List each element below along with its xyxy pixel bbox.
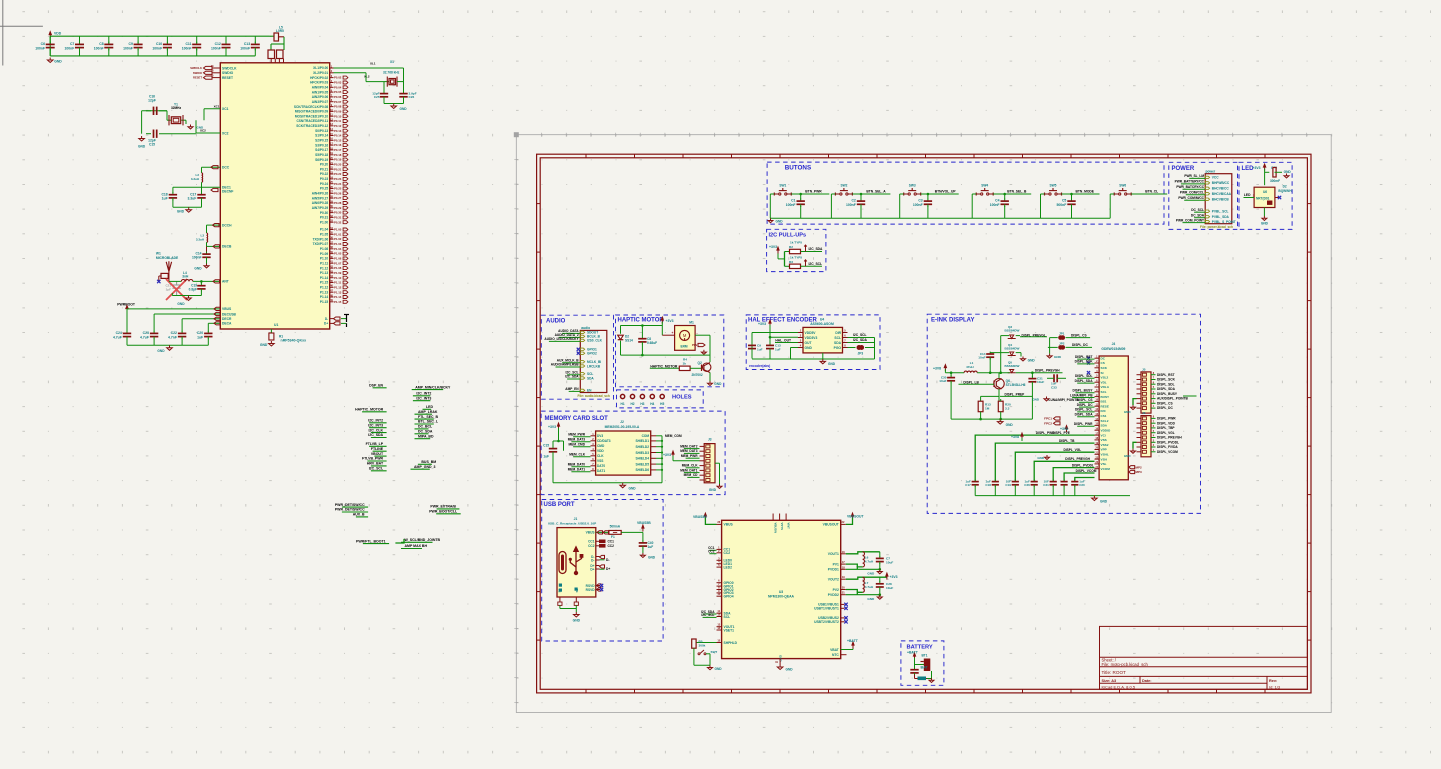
svg-text:LED2: LED2 <box>724 565 733 569</box>
svg-text:DECUSB: DECUSB <box>222 312 237 316</box>
svg-text:VSL2: VSL2 <box>1101 376 1109 380</box>
power +BATT <box>914 656 916 659</box>
svg-text:CC2: CC2 <box>608 544 615 548</box>
capacitor C2 <box>860 193 863 196</box>
svg-text:NPM1300-QEAA: NPM1300-QEAA <box>768 595 795 599</box>
pin CC2 <box>717 552 722 554</box>
svg-text:MEM_COM: MEM_COM <box>665 434 682 438</box>
svg-text:P0.31: P0.31 <box>320 216 329 220</box>
svg-text:GND: GND <box>776 220 784 224</box>
svg-text:C2: C2 <box>851 199 855 203</box>
capacitor C31 <box>1031 373 1033 377</box>
svg-text:1uF: 1uF <box>162 197 168 201</box>
ground right <box>715 462 720 464</box>
svg-text:C18: C18 <box>985 483 991 487</box>
svg-text:C20: C20 <box>1079 483 1085 487</box>
svg-text:P0.12: P0.12 <box>334 124 342 128</box>
svg-text:S0/P0.13: S0/P0.13 <box>315 129 328 133</box>
ground <box>1049 354 1051 356</box>
svg-text:SCL2: SCL2 <box>1101 419 1109 423</box>
svg-text:SI: SI <box>1101 371 1104 375</box>
svg-text:P0.32: P0.32 <box>334 220 342 224</box>
svg-text:CMD: CMD <box>597 444 605 448</box>
svg-text:R2: R2 <box>789 245 793 249</box>
svg-text:CD/DAT3: CD/DAT3 <box>597 439 611 443</box>
svg-text:BSS84DW: BSS84DW <box>1005 347 1020 351</box>
svg-text:RSVD: RSVD <box>586 588 596 592</box>
svg-text:I2C_INT3: I2C_INT3 <box>368 423 383 427</box>
svg-text:+3V3: +3V3 <box>1253 166 1261 170</box>
capacitor C15 <box>146 133 151 135</box>
wire bottom rail <box>771 217 1111 219</box>
svg-text:P0.25: P0.25 <box>334 187 342 191</box>
svg-text:P0.26: P0.26 <box>334 191 342 195</box>
svg-text:DSP_EN: DSP_EN <box>369 384 383 388</box>
svg-text:HAPTIC MOTOR: HAPTIC MOTOR <box>618 318 665 324</box>
svg-text:3.3: 3.3 <box>1005 407 1010 411</box>
svg-text:I2C PULL-UPs: I2C PULL-UPs <box>769 233 807 239</box>
power +3V3 <box>1264 167 1266 170</box>
capacitor C25 <box>383 91 385 94</box>
ground <box>1263 208 1265 217</box>
svg-text:DAT0: DAT0 <box>597 464 605 468</box>
svg-text:GND: GND <box>1032 398 1040 402</box>
svg-text:W_SCL/BND_JOINTB: W_SCL/BND_JOINTB <box>405 538 441 542</box>
sheet pin PVBL_S_POINT <box>1205 220 1209 222</box>
capacitor C10 <box>166 36 168 43</box>
svg-text:D-: D- <box>606 558 609 562</box>
block POWER <box>1169 162 1238 229</box>
U1 right side pins group A <box>330 67 334 69</box>
svg-text:DECB: DECB <box>222 245 232 249</box>
svg-text:P0.11: P0.11 <box>334 119 342 123</box>
svg-text:POWER: POWER <box>1172 166 1195 172</box>
svg-text:1pF: 1pF <box>166 288 172 292</box>
sheet pin I2S0_CLK <box>580 339 584 341</box>
svg-text:SCL: SCL <box>834 336 841 340</box>
resistor R2 vdd filter <box>271 43 284 45</box>
svg-text:DCC: DCC <box>222 166 230 170</box>
svg-text:GND: GND <box>54 60 62 64</box>
svg-text:100nF: 100nF <box>211 46 221 50</box>
svg-text:DISPL_RST: DISPL_RST <box>1157 373 1175 377</box>
svg-text:D2: D2 <box>1283 185 1287 189</box>
svg-text:SWDIO: SWDIO <box>193 71 202 75</box>
svg-text:SHIELD6: SHIELD6 <box>636 468 650 472</box>
sheet pin BCLK_B <box>580 335 584 337</box>
svg-text:P0.20: P0.20 <box>320 163 329 167</box>
block MEMORY CARD SLOT <box>541 411 725 495</box>
pin DECB <box>207 245 221 247</box>
right pins vout1 <box>841 553 846 555</box>
svg-text:DISPL_SCK: DISPL_SCK <box>1075 360 1094 364</box>
svg-text:STL5N3LLH6: STL5N3LLH6 <box>1006 383 1026 387</box>
svg-text:BUSY: BUSY <box>1101 395 1111 399</box>
resistor R1 <box>270 329 272 333</box>
svg-text:GND: GND <box>715 667 723 671</box>
svg-text:MEM2051-00-195-00-A: MEM2051-00-195-00-A <box>605 425 640 429</box>
svg-text:MEM_CMD: MEM_CMD <box>569 442 586 446</box>
power +3V8 <box>944 368 946 371</box>
wires to gnd <box>553 482 662 484</box>
svg-text:audio: audio <box>581 326 590 330</box>
svg-text:VCC: VCC <box>1212 176 1219 180</box>
svg-text:1uF: 1uF <box>197 335 203 339</box>
svg-text:FPC1: FPC1 <box>1044 417 1052 421</box>
svg-text:P0.06: P0.06 <box>334 95 342 99</box>
svg-text:I2S0_CLK: I2S0_CLK <box>587 339 603 343</box>
svg-text:1k: 1k <box>683 361 687 365</box>
svg-text:USBT2/VBUST2: USBT2/VBUST2 <box>814 620 839 624</box>
svg-text:PWR_COM_POINT: PWR_COM_POINT <box>1176 218 1204 222</box>
svg-text:FPC2: FPC2 <box>1044 422 1052 426</box>
hlabels FPC <box>1054 417 1061 420</box>
svg-text:D+: D+ <box>324 322 328 326</box>
pin SWDCLK <box>212 67 220 69</box>
svg-text:C26: C26 <box>1024 483 1030 487</box>
svg-text:MEM_DAT2: MEM_DAT2 <box>680 444 698 448</box>
svg-text:GND: GND <box>1037 456 1045 460</box>
svg-text:C13: C13 <box>244 42 250 46</box>
svg-text:GND: GND <box>1124 454 1132 458</box>
pin GPIO4 <box>717 595 722 597</box>
capacitor C23 <box>153 314 155 332</box>
svg-text:GND: GND <box>1284 170 1292 174</box>
svg-text:I2C_INT2: I2C_INT2 <box>368 419 383 423</box>
svg-text:P1.14: P1.14 <box>320 276 329 280</box>
ground <box>575 612 577 615</box>
svg-text:P1.09: P1.09 <box>334 271 342 275</box>
svg-text:P1.06: P1.06 <box>334 257 342 261</box>
svg-text:P1.12: P1.12 <box>320 286 329 290</box>
svg-text:P1.09: P1.09 <box>320 252 329 256</box>
sheet pin BHCVB/CAA <box>1205 193 1209 195</box>
svg-text:100nF: 100nF <box>913 203 923 207</box>
svg-text:PIN: PIN <box>692 343 697 347</box>
capacitor C7 <box>79 36 81 43</box>
svg-text:CS1: CS1 <box>1101 414 1107 418</box>
labels right <box>848 337 875 339</box>
svg-text:BUTONS: BUTONS <box>785 165 811 172</box>
svg-text:100nF: 100nF <box>35 46 45 50</box>
sheet pin BHCVB/CB <box>1205 198 1209 200</box>
svg-text:AUX/DISPL_POINTB: AUX/DISPL_POINTB <box>1157 397 1189 401</box>
capacitor C17 <box>201 192 203 195</box>
pin LED0 <box>717 559 722 561</box>
ground <box>188 296 190 299</box>
svg-text:EN: EN <box>587 389 592 393</box>
svg-text:MEM_DAT0: MEM_DAT0 <box>568 462 586 466</box>
pin DECA <box>208 322 220 324</box>
resistor R13 <box>980 396 982 401</box>
svg-text:C15: C15 <box>149 142 155 146</box>
svg-text:LED: LED <box>426 405 433 409</box>
svg-text:I2C_INT2: I2C_INT2 <box>416 392 431 396</box>
svg-text:W1: W1 <box>156 251 161 255</box>
svg-text:DISPL_BUSY: DISPL_BUSY <box>1157 392 1178 396</box>
svg-text:+BATT: +BATT <box>907 651 919 655</box>
svg-text:MEM_CLK: MEM_CLK <box>682 464 698 468</box>
svg-text:C21: C21 <box>1043 483 1049 487</box>
svg-text:4.7uF: 4.7uF <box>140 335 149 339</box>
capacitor C4 <box>1003 193 1006 196</box>
svg-text:FTLVB_PWR: FTLVB_PWR <box>362 457 384 461</box>
svg-text:P1.11: P1.11 <box>334 281 342 285</box>
svg-text:VDD3V3: VDD3V3 <box>805 336 818 340</box>
svg-text:H4: H4 <box>650 402 654 406</box>
svg-text:DC_SCL: DC_SCL <box>1191 208 1204 212</box>
block LED <box>1239 162 1292 229</box>
svg-text:FTLINE: FTLINE <box>371 447 384 451</box>
svg-text:100nF: 100nF <box>64 46 74 50</box>
capacitor C18 <box>172 187 174 193</box>
svg-text:2N7002: 2N7002 <box>692 373 703 377</box>
mounting hole H5 <box>660 394 664 398</box>
svg-text:C15: C15 <box>543 444 549 448</box>
svg-text:C11: C11 <box>185 42 191 46</box>
svg-text:+3V3: +3V3 <box>666 319 674 323</box>
svg-text:12pF: 12pF <box>148 98 156 102</box>
svg-text:S2/P0.15: S2/P0.15 <box>315 139 328 143</box>
svg-text:PWR_BOOT/CLL: PWR_BOOT/CLL <box>429 510 458 514</box>
svg-text:C17: C17 <box>190 192 196 196</box>
svg-text:PWR_DET/SW/CC: PWR_DET/SW/CC <box>335 508 365 512</box>
pin VBUS <box>127 308 220 310</box>
svg-text:Q2: Q2 <box>698 361 702 365</box>
block AUDIO <box>541 315 613 399</box>
svg-text:4.7nF: 4.7nF <box>168 335 177 339</box>
ground <box>999 419 1001 422</box>
svg-text:BAT: BAT <box>921 666 929 670</box>
svg-text:BHFWB/CC: BHFWB/CC <box>1212 181 1230 185</box>
svg-text:+3V3: +3V3 <box>663 453 671 457</box>
LED driver U6 <box>1254 187 1275 207</box>
svg-text:P0.02: P0.02 <box>334 76 342 80</box>
capacitor C28 <box>879 577 881 582</box>
svg-text:C23: C23 <box>143 331 149 335</box>
mounting hole H3 <box>640 394 644 398</box>
svg-text:47uH: 47uH <box>966 365 974 369</box>
svg-text:MEM_DAT1: MEM_DAT1 <box>680 468 698 472</box>
svg-text:AIN6/P0.28: AIN6/P0.28 <box>312 201 329 205</box>
jumper JP3 <box>848 347 856 349</box>
svg-text:DISPL_TBP: DISPL_TBP <box>1157 426 1175 430</box>
svg-text:M1: M1 <box>689 321 694 325</box>
svg-text:100nF: 100nF <box>182 46 192 50</box>
svg-text:DISPL_VDD: DISPL_VDD <box>1157 421 1176 425</box>
svg-text:NRT(D01: NRT(D01 <box>1256 197 1270 201</box>
svg-text:P0.22: P0.22 <box>320 172 329 176</box>
svg-text:DISPL_BUSY: DISPL_BUSY <box>1072 389 1093 393</box>
svg-text:0.8pF: 0.8pF <box>189 287 197 291</box>
svg-text:P1.13: P1.13 <box>320 271 329 275</box>
ground <box>188 207 190 210</box>
svg-text:CC2: CC2 <box>708 550 715 554</box>
svg-text:BTL_SEC_L: BTL_SEC_L <box>418 420 439 424</box>
svg-text:DISPL_SCK: DISPL_SCK <box>1157 378 1176 382</box>
svg-text:BUS_BM: BUS_BM <box>421 460 436 464</box>
svg-text:I2C_SCL: I2C_SCL <box>853 333 867 337</box>
power +3V8b <box>1066 429 1068 432</box>
svg-text:P1.05: P1.05 <box>320 233 329 237</box>
svg-text:Size: A3: Size: A3 <box>1102 679 1117 683</box>
svg-text:XC1: XC1 <box>214 105 220 109</box>
svg-text:P0.08: P0.08 <box>334 105 342 109</box>
capacitor C30 <box>950 373 952 376</box>
pin SHPHLD <box>717 642 722 644</box>
bottom wire <box>752 358 875 360</box>
svg-text:PWR_DET/SW/CC: PWR_DET/SW/CC <box>335 503 365 507</box>
svg-text:DISPL_PREVGH: DISPL_PREVGH <box>1035 369 1060 373</box>
svg-text:VDD: VDD <box>597 449 604 453</box>
sheet pin PVBL_SCL <box>1205 210 1209 212</box>
capacitor C11 <box>196 36 198 43</box>
svg-text:SDA: SDA <box>587 376 594 380</box>
svg-text:JP3: JP3 <box>857 352 863 356</box>
svg-text:I2C_CLK: I2C_CLK <box>369 428 384 432</box>
svg-text:I2C_SDA: I2C_SDA <box>565 375 579 379</box>
inductor L3 <box>207 224 221 226</box>
resistor R20 <box>998 401 1003 412</box>
sheet pin BHCVB/CC <box>1205 187 1209 189</box>
svg-text:VBUS: VBUS <box>724 523 734 527</box>
svg-text:C20: C20 <box>197 331 203 335</box>
svg-text:P0.05: P0.05 <box>334 90 342 94</box>
svg-text:X1: X1 <box>390 60 394 64</box>
power VBUSOUT <box>852 516 854 519</box>
usb trident <box>570 552 581 573</box>
svg-text:DISPL_PWR: DISPL_PWR <box>1074 422 1093 426</box>
svg-text:D/C: D/C <box>1101 409 1107 413</box>
svg-text:C24: C24 <box>116 331 122 335</box>
svg-text:GND: GND <box>177 302 185 306</box>
svg-text:P0.23: P0.23 <box>334 177 342 181</box>
crystal Y1 32MHz <box>204 108 220 110</box>
svg-text:I2C_SCL: I2C_SCL <box>701 613 714 617</box>
svg-text:GND: GND <box>400 107 408 111</box>
svg-text:S1: S1 <box>558 588 562 592</box>
svg-text:KiCad E.D.A. 8.0.5: KiCad E.D.A. 8.0.5 <box>1102 685 1136 690</box>
sheet frame <box>537 154 1311 693</box>
svg-text:4.7uH: 4.7uH <box>865 585 874 589</box>
svg-text:C33: C33 <box>1051 385 1057 389</box>
ground mid <box>1046 455 1048 457</box>
pin VBUS <box>596 531 609 533</box>
hlabel <box>698 343 705 346</box>
svg-text:BTN_MODE: BTN_MODE <box>1076 190 1095 194</box>
svg-text:DISPL_PVDDL: DISPL_PVDDL <box>1157 440 1179 444</box>
svg-text:USB_C_Receptacle_USB2.0_16P: USB_C_Receptacle_USB2.0_16P <box>548 522 596 526</box>
block HAL EFFECT ENCODER <box>746 315 880 370</box>
svg-text:MEM_DAT3: MEM_DAT3 <box>568 437 586 441</box>
ground J4 mp pins <box>1129 466 1135 469</box>
svg-text:P0.28: P0.28 <box>334 201 342 205</box>
capacitor C1 <box>799 193 802 196</box>
svg-text:C7: C7 <box>70 42 74 46</box>
sheet pin MCLK_BI <box>580 361 584 363</box>
svg-text:P1.11: P1.11 <box>320 261 328 265</box>
svg-text:P1.14: P1.14 <box>320 295 329 299</box>
capacitor C24 <box>126 309 128 332</box>
svg-text:VBUSOUT: VBUSOUT <box>847 515 865 519</box>
svg-text:BT1: BT1 <box>922 654 928 658</box>
svg-text:P0.13: P0.13 <box>334 129 342 133</box>
svg-text:4.7uH: 4.7uH <box>865 560 874 564</box>
svg-text:AS5600-ASOM: AS5600-ASOM <box>810 322 834 326</box>
svg-text:PWR_SL_LM: PWR_SL_LM <box>1184 174 1204 178</box>
svg-text:S4/P0.17: S4/P0.17 <box>315 148 328 152</box>
svg-text:AUDIO: AUDIO <box>546 319 566 325</box>
capacitor bottom bank <box>1015 452 1094 481</box>
svg-text:C19: C19 <box>1005 483 1011 487</box>
svg-text:VSYS: VSYS <box>780 523 784 531</box>
svg-text:DISPL_PREVGH: DISPL_PREVGH <box>1065 457 1090 461</box>
svg-text:BHCVB/CAA: BHCVB/CAA <box>1212 192 1232 196</box>
svg-text:10uF: 10uF <box>939 379 946 383</box>
pin CC1 <box>717 548 722 550</box>
svg-text:P1.04: P1.04 <box>334 247 342 251</box>
capacitor C9 <box>751 343 753 345</box>
svg-text:Title: ROOT: Title: ROOT <box>1102 670 1127 675</box>
capacitor C9 <box>137 36 139 43</box>
svg-text:P0.21: P0.21 <box>320 167 329 171</box>
svg-text:P0.04: P0.04 <box>334 85 342 89</box>
capacitor C6 <box>49 36 51 43</box>
ground <box>822 353 824 359</box>
svg-text:DISPL_SDA: DISPL_SDA <box>1075 379 1094 383</box>
svg-text:HAPTIC_MOTOR: HAPTIC_MOTOR <box>650 364 678 368</box>
mounting hole H4 <box>650 394 654 398</box>
svg-text:CC2: CC2 <box>724 551 731 555</box>
inductor L2 <box>202 166 221 168</box>
hierarchical sheet audio <box>580 330 607 392</box>
svg-text:100nF: 100nF <box>152 46 162 50</box>
svg-text:I2C_INT3: I2C_INT3 <box>416 396 431 400</box>
svg-text:MEM_CD: MEM_CD <box>684 473 699 477</box>
svg-text:C10: C10 <box>156 42 162 46</box>
svg-text:VCI: VCI <box>1101 433 1106 437</box>
svg-text:CC1: CC1 <box>608 539 615 543</box>
svg-text:BTN_CL: BTN_CL <box>1145 190 1158 194</box>
svg-text:+3V8: +3V8 <box>1011 435 1019 439</box>
svg-text:BTN_PWR: BTN_PWR <box>805 190 822 194</box>
svg-text:SCL: SCL <box>1101 390 1107 394</box>
PMIC U3 <box>722 520 841 658</box>
svg-text:C25: C25 <box>374 95 380 99</box>
svg-text:DISPL_SDL: DISPL_SDL <box>1075 374 1093 378</box>
svg-text:E-INK DISPLAY: E-INK DISPLAY <box>931 318 974 324</box>
svg-text:HRV_BAT: HRV_BAT <box>367 462 384 466</box>
pins VBAT NTC <box>841 649 853 651</box>
svg-text:GND: GND <box>1028 359 1036 363</box>
svg-text:GND: GND <box>1006 423 1014 427</box>
svg-text:HAPTIC_MOTOR: HAPTIC_MOTOR <box>355 408 383 412</box>
svg-text:SHIELD5: SHIELD5 <box>636 462 650 466</box>
svg-text:1uF: 1uF <box>775 348 781 352</box>
ground <box>206 264 208 266</box>
svg-text:P0.30: P0.30 <box>334 211 342 215</box>
svg-text:SDA: SDA <box>834 341 842 345</box>
svg-text:C8: C8 <box>99 42 103 46</box>
inductor L7 <box>846 577 887 579</box>
svg-text:AMP_GND_3: AMP_GND_3 <box>414 465 435 469</box>
svg-text:XC2: XC2 <box>222 131 229 135</box>
svg-text:P0.22: P0.22 <box>334 172 342 176</box>
svg-text:PV2: PV2 <box>833 588 839 592</box>
svg-text:CSN/TRACED2/P0.11: CSN/TRACED2/P0.11 <box>296 119 328 123</box>
svg-text:nRF5340-QKxx: nRF5340-QKxx <box>281 339 307 343</box>
ground <box>49 58 51 61</box>
